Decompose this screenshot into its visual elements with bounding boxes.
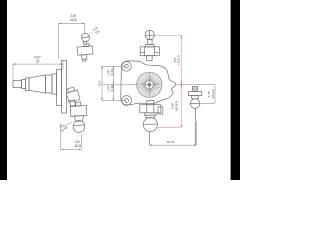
svg-text:115: 115 (36, 59, 40, 63)
svg-text:41.91: 41.91 (110, 84, 114, 92)
svg-text:(92.83): (92.83) (174, 101, 178, 111)
svg-text:41.91: 41.91 (110, 68, 114, 76)
svg-text:117.63: 117.63 (167, 140, 174, 144)
svg-text:62.5: 62.5 (97, 80, 101, 86)
svg-text:62.26: 62.26 (70, 18, 77, 22)
svg-text:(114.3): (114.3) (177, 55, 181, 64)
svg-text:46.18: 46.18 (74, 144, 81, 148)
svg-text:(59.94): (59.94) (211, 89, 215, 98)
